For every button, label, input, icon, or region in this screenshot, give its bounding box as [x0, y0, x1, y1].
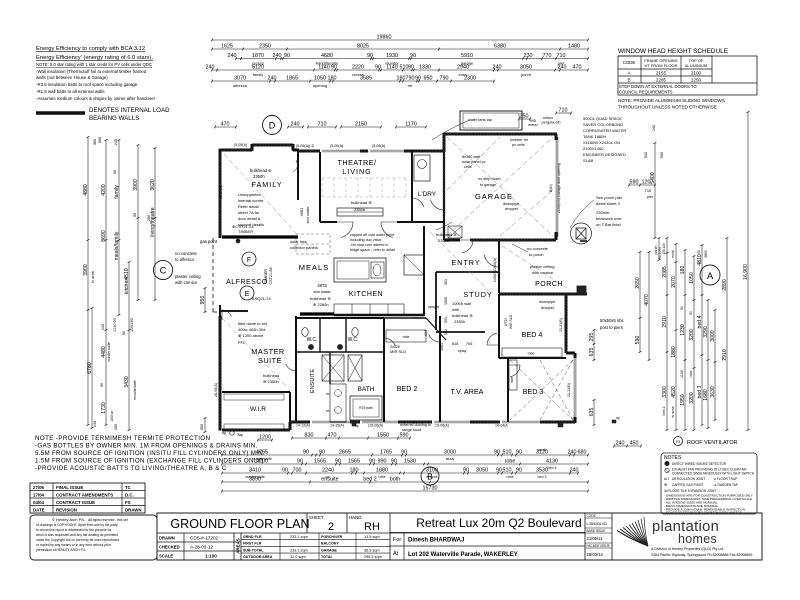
- svg-text:90: 90: [689, 311, 693, 315]
- svg-text:B: B: [627, 78, 630, 83]
- roof ventilator note: [674, 437, 738, 447]
- svg-text:T.V. AREA: T.V. AREA: [451, 387, 484, 396]
- svg-text:LIVING: LIVING: [342, 167, 372, 176]
- svg-text:3620: 3620: [150, 179, 156, 191]
- svg-text:GARAGE: GARAGE: [321, 548, 337, 552]
- svg-text:21/09/11: 21/09/11: [587, 536, 604, 541]
- svg-text:SLAB: SLAB: [583, 158, 594, 163]
- svg-text:OUTDOOR AREA: OUTDOOR AREA: [243, 555, 273, 559]
- svg-text:1050: 1050: [689, 272, 695, 284]
- svg-text:2450X2280(A): 2450X2280(A): [493, 257, 497, 282]
- svg-text:both: both: [390, 476, 401, 482]
- svg-text:3000: 3000: [444, 449, 456, 455]
- svg-text:-R3.5 insulation batts to roof: -R3.5 insulation batts to roof space inc…: [36, 82, 138, 87]
- svg-text:range hood: range hood: [402, 428, 421, 432]
- svg-text:robe: robe: [378, 475, 385, 479]
- svg-text:FACADE ISSUE: FACADE ISSUE: [587, 544, 610, 548]
- svg-text:3354 Pacific Highway, Springwo: 3354 Pacific Highway, Springwood Ph:3290…: [651, 553, 752, 557]
- svg-text:180: 180: [680, 266, 686, 275]
- svg-text:2100: 2100: [691, 71, 702, 76]
- svg-text:PORCH: PORCH: [535, 281, 563, 288]
- svg-text:including duo valve: including duo valve: [350, 238, 381, 242]
- svg-text:710: 710: [557, 53, 566, 59]
- svg-text:Tap: Tap: [237, 433, 243, 437]
- svg-text:3200: 3200: [689, 329, 695, 341]
- svg-text:DRAWN: DRAWN: [125, 508, 142, 513]
- plan top dims tier 2: [215, 126, 236, 128]
- svg-text:⊕ 2280h: ⊕ 2280h: [313, 302, 329, 307]
- svg-text:950: 950: [424, 75, 433, 81]
- svg-text:19860: 19860: [377, 34, 392, 40]
- svg-text:4880: 4880: [83, 184, 89, 196]
- svg-text:capped off cold water point: capped off cold water point: [350, 233, 394, 237]
- svg-text:3530: 3530: [536, 467, 548, 473]
- svg-text:TOTAL: TOTAL: [321, 555, 333, 559]
- svg-text:680: 680: [578, 449, 587, 455]
- svg-text:2285: 2285: [656, 78, 667, 83]
- svg-text:2650: 2650: [635, 277, 641, 289]
- svg-text:3050: 3050: [520, 64, 532, 70]
- svg-text:2070: 2070: [671, 276, 677, 288]
- svg-text:510: 510: [503, 449, 512, 455]
- svg-text:DRAWN: DRAWN: [159, 536, 175, 541]
- svg-text:1050/90: 1050/90: [130, 318, 134, 332]
- svg-text:240: 240: [268, 75, 277, 81]
- svg-text:1870: 1870: [252, 53, 264, 59]
- svg-text:14-15(A): 14-15(A): [330, 424, 344, 428]
- svg-text:230: 230: [524, 53, 533, 59]
- svg-text:pergola o/b: pergola o/b: [542, 121, 561, 125]
- svg-text:family: family: [253, 72, 263, 77]
- svg-text:internal corner.: internal corner.: [238, 198, 264, 203]
- datum circle B: [421, 467, 439, 485]
- svg-text:● FLOOR TRAP: ● FLOOR TRAP: [714, 477, 737, 481]
- svg-text:collector panels: collector panels: [290, 245, 318, 250]
- svg-text:1000h wall: 1000h wall: [452, 301, 471, 306]
- svg-text:TC: TC: [125, 485, 132, 490]
- svg-text:295.3 sqm: 295.3 sqm: [364, 555, 382, 559]
- svg-text:W.C.: W.C.: [307, 337, 318, 343]
- svg-text:D.C.: D.C.: [125, 493, 134, 498]
- svg-text:16,900: 16,900: [743, 264, 749, 280]
- svg-text:meals/family: meals/family: [114, 231, 120, 260]
- svg-text:-R1.5 wall batts to all extern: -R1.5 wall batts to all external walls: [36, 89, 105, 94]
- svg-text:1765: 1765: [380, 449, 392, 455]
- svg-text:porch: porch: [538, 448, 547, 452]
- svg-text:R75 bath: R75 bath: [359, 406, 373, 410]
- svg-text:dp: dp: [616, 416, 620, 420]
- svg-text:SHEET: SHEET: [309, 515, 324, 520]
- svg-text:porch: porch: [521, 72, 531, 77]
- svg-text:RH: RH: [364, 521, 380, 533]
- svg-text:4480: 4480: [101, 346, 107, 358]
- svg-text:90: 90: [463, 467, 469, 473]
- svg-text:3070: 3070: [234, 75, 246, 81]
- svg-text:ALFRESCO: ALFRESCO: [226, 279, 268, 286]
- svg-text:FIRST FLR: FIRST FLR: [243, 542, 262, 546]
- svg-text:950: 950: [200, 424, 204, 430]
- svg-text:Refer detail: Refer detail: [238, 204, 259, 209]
- theatre dashed ceiling: [322, 178, 406, 197]
- svg-text:THEATRE/: THEATRE/: [337, 158, 376, 167]
- top dimension row 3: [236, 58, 588, 60]
- svg-text:2350h: 2350h: [454, 319, 465, 324]
- top dimension row 19860: [212, 39, 588, 41]
- svg-text:Dinesh BHARDWAJ: Dinesh BHARDWAJ: [408, 538, 464, 544]
- svg-text:36.3 sqm: 36.3 sqm: [364, 548, 380, 552]
- svg-text:robe: robe: [689, 370, 693, 377]
- svg-text:3890: 3890: [249, 476, 261, 482]
- svg-text:vb: vb: [326, 409, 330, 413]
- exterior walls: [213, 133, 592, 431]
- copyright box: [30, 515, 157, 560]
- svg-text:240 wr: 240 wr: [110, 410, 114, 422]
- svg-text:C: C: [160, 266, 167, 276]
- svg-text:external ducting to: external ducting to: [400, 423, 431, 427]
- areas table: [236, 533, 391, 560]
- notes box: [661, 453, 757, 515]
- svg-text:THROUGHOUT UNLESS NOTED OTHERW: THROUGHOUT UNLESS NOTED OTHERWISE: [618, 105, 717, 110]
- svg-text:8x180 watt: 8x180 watt: [462, 155, 481, 159]
- svg-text:TANK 1880H: TANK 1880H: [583, 134, 606, 139]
- svg-text:BALCONY: BALCONY: [321, 542, 339, 546]
- svg-text:CONTRACT AMENDMENTS: CONTRACT AMENDMENTS: [56, 493, 113, 498]
- svg-text:FS: FS: [125, 500, 131, 505]
- svg-text:2220: 2220: [352, 64, 364, 70]
- svg-text:FINAL ISSUE: FINAL ISSUE: [56, 485, 83, 490]
- svg-text:BED 2: BED 2: [397, 384, 418, 393]
- svg-text:GROUND FLOOR PLAN: GROUND FLOOR PLAN: [170, 517, 309, 531]
- svg-text:5910: 5910: [461, 53, 473, 59]
- svg-text:3900: 3900: [83, 264, 89, 276]
- svg-text:590: 590: [635, 336, 641, 345]
- svg-text:HT FROM FLOOR: HT FROM FLOOR: [644, 63, 677, 68]
- svg-text:790: 790: [440, 75, 449, 81]
- svg-text:5.5M FROM SOURCE OF IGNITION (: 5.5M FROM SOURCE OF IGNITION (INSITU FIL…: [35, 450, 265, 457]
- svg-text:NOTE: 5.0 star rating with 1 s: NOTE: 5.0 star rating with 1 star credit…: [36, 62, 152, 67]
- title block frame: [157, 513, 762, 560]
- svg-text:MEALS: MEALS: [299, 263, 329, 272]
- left dimension band: [83, 136, 157, 431]
- svg-text:alfresco: alfresco: [233, 83, 248, 88]
- dp marks: [352, 423, 356, 426]
- svg-text:2155: 2155: [656, 71, 667, 76]
- svg-text:fridge space - refer to detail: fridge space - refer to detail: [350, 248, 395, 252]
- svg-text:3900: 3900: [133, 179, 139, 191]
- svg-text:3d FLOOR TILE EXPANSION JOINT: 3d FLOOR TILE EXPANSION JOINT: [664, 489, 716, 493]
- svg-text:180: 180: [397, 75, 406, 81]
- svg-text:(5-05(A): (5-05(A): [330, 144, 343, 148]
- svg-text:with cornice: with cornice: [175, 280, 198, 285]
- internal load bearing walls legend: [36, 107, 170, 122]
- svg-text:sheet 7A for: sheet 7A for: [238, 210, 260, 215]
- svg-text:1880: 1880: [376, 467, 388, 473]
- svg-text:with cornice: with cornice: [532, 270, 554, 275]
- svg-text:water tank tap: water tank tap: [468, 118, 492, 122]
- svg-text:2240: 2240: [322, 467, 334, 473]
- svg-text:ARTICULATION JOINT: ARTICULATION JOINT: [672, 477, 705, 481]
- svg-text:1565: 1565: [314, 458, 326, 464]
- svg-text:1230: 1230: [680, 324, 686, 336]
- svg-text:710: 710: [559, 107, 568, 113]
- svg-text:of drawings is COPYRIGHT. Apar: of drawings is COPYRIGHT. Apart from use…: [36, 523, 118, 527]
- svg-text:27/06: 27/06: [33, 485, 45, 490]
- svg-text:DENOTES INTERNAL LOAD: DENOTES INTERNAL LOAD: [89, 107, 170, 114]
- svg-text:21-24(B): 21-24(B): [567, 383, 571, 397]
- svg-text:1505: 1505: [444, 297, 448, 305]
- garage roof diagonals: [447, 137, 553, 236]
- svg-text:DIRECT WIRED SMOKE DETECTOR: DIRECT WIRED SMOKE DETECTOR: [672, 462, 727, 466]
- datum circle F: [242, 252, 256, 266]
- svg-text:295: 295: [589, 333, 595, 342]
- svg-text:Energy Efficiency to comply wi: Energy Efficiency to comply with BCA 3.1…: [36, 46, 145, 52]
- svg-text:500OL QUAD SPACE: 500OL QUAD SPACE: [583, 116, 622, 121]
- svg-text:F3: F3: [676, 440, 680, 444]
- svg-text:90: 90: [297, 458, 303, 464]
- svg-text:90: 90: [284, 53, 290, 59]
- svg-text:4200: 4200: [101, 184, 107, 196]
- svg-text:830: 830: [305, 432, 314, 438]
- svg-text:E: E: [245, 291, 250, 298]
- svg-text:233.1 sqm: 233.1 sqm: [290, 535, 308, 539]
- svg-text:⊕ GARDEN TAP: ⊕ GARDEN TAP: [714, 483, 738, 487]
- svg-text:opening: opening: [313, 83, 327, 88]
- svg-text:X1160W X2440L ON: X1160W X2440L ON: [583, 140, 620, 145]
- svg-text:510: 510: [503, 467, 512, 473]
- svg-text:At: At: [393, 551, 399, 557]
- svg-text:CONTRACT ISSUE: CONTRACT ISSUE: [56, 500, 95, 505]
- svg-text:3200: 3200: [689, 392, 695, 404]
- svg-text:694: 694: [424, 330, 428, 336]
- svg-text:SUB-TOTAL: SUB-TOTAL: [243, 548, 264, 552]
- svg-text:2350b: 2350b: [354, 207, 366, 212]
- svg-text:bulkhead ⊕: bulkhead ⊕: [250, 168, 272, 173]
- svg-text:590: 590: [660, 152, 664, 158]
- svg-text:180: 180: [350, 467, 359, 473]
- svg-text:post to piers: post to piers: [600, 325, 623, 330]
- datum circle E: [240, 286, 254, 300]
- svg-text:For: For: [393, 537, 401, 543]
- svg-text:bulkhead ⊕: bulkhead ⊕: [436, 232, 457, 237]
- svg-text:detail sheet 3: detail sheet 3: [596, 201, 621, 206]
- svg-text:no step down: no step down: [478, 177, 501, 181]
- svg-text:1140 90: 1140 90: [113, 318, 117, 331]
- svg-text:4873: 4873: [317, 283, 327, 288]
- svg-text:m/box: m/box: [543, 116, 553, 120]
- svg-text:90: 90: [496, 467, 502, 473]
- svg-text:3300: 3300: [662, 386, 668, 398]
- svg-text:pv cells: pv cells: [512, 143, 525, 147]
- svg-text:04/04: 04/04: [33, 500, 45, 505]
- svg-text:SUITE: SUITE: [258, 356, 282, 365]
- svg-text:permission of HENLEY ARCH P/L: permission of HENLEY ARCH P/L: [36, 548, 86, 552]
- svg-text:5890: 5890: [704, 250, 708, 258]
- svg-text:ensuite: ensuite: [321, 476, 338, 482]
- svg-text:1.5M FROM SOURCE OF IGNITION (: 1.5M FROM SOURCE OF IGNITION (EXCHANGE F…: [35, 458, 264, 465]
- svg-text:ALUMINIUM: ALUMINIUM: [685, 63, 707, 68]
- termite protection note: [35, 435, 265, 472]
- svg-text:90: 90: [516, 467, 522, 473]
- svg-text:4520: 4520: [671, 386, 677, 398]
- svg-text:3050: 3050: [476, 467, 488, 473]
- svg-text:ENTRY: ENTRY: [451, 258, 480, 267]
- svg-text:50x50x5 shs: 50x50x5 shs: [600, 318, 624, 323]
- svg-text:solar panel pv: solar panel pv: [462, 160, 486, 164]
- svg-text:1480: 1480: [568, 43, 580, 49]
- svg-text:240: 240: [493, 64, 502, 70]
- retreat cell: [390, 516, 585, 560]
- svg-text:120: 120: [642, 179, 651, 185]
- interior walls: [222, 150, 566, 429]
- svg-text:bed 4: bed 4: [548, 466, 557, 470]
- svg-text:tv area: tv area: [91, 270, 95, 282]
- svg-text:NOTE -PROVIDE TERMIMESH TERMIT: NOTE -PROVIDE TERMIMESH TERMITE PROTECTI…: [35, 435, 210, 442]
- svg-text:to whom this report is address: to whom this report is addressed for the…: [36, 528, 112, 532]
- svg-text:2350h: 2350h: [253, 174, 265, 179]
- svg-text:818: 818: [452, 342, 458, 346]
- svg-text:no concrete: no concrete: [527, 246, 549, 251]
- aluminium sliding windows note: [618, 98, 725, 110]
- svg-text:240: 240: [558, 64, 567, 70]
- svg-text:sink waste: sink waste: [306, 207, 310, 224]
- svg-text:master suite: master suite: [107, 342, 111, 362]
- svg-text:28/03/12: 28/03/12: [587, 552, 604, 557]
- svg-text:upright: upright: [428, 305, 439, 309]
- svg-text:which it was requested and any: which it was requested and any fair deal…: [36, 533, 118, 537]
- svg-text:790: 790: [406, 75, 415, 81]
- svg-text:vb: vb: [326, 392, 330, 396]
- svg-text:233.1 sqm: 233.1 sqm: [290, 548, 308, 552]
- svg-text:2085: 2085: [662, 266, 668, 278]
- svg-text:HAND: HAND: [349, 515, 361, 520]
- svg-text:robe: robe: [510, 377, 514, 384]
- svg-text:15-06(A): 15-06(A): [435, 424, 449, 428]
- svg-text:⊕ 1200 above: ⊕ 1200 above: [238, 333, 264, 338]
- svg-text:635: 635: [589, 408, 595, 417]
- svg-text:3290: 3290: [703, 326, 709, 338]
- svg-text:(5-05(A): (5-05(A): [372, 144, 385, 148]
- svg-text:W.I.R: W.I.R: [250, 406, 266, 413]
- svg-text:(15-06(A): (15-06(A): [368, 424, 383, 428]
- svg-text:706: 706: [466, 342, 472, 346]
- svg-text:240: 240: [206, 64, 215, 70]
- svg-text:robe: robe: [505, 458, 516, 464]
- svg-text:2910: 2910: [722, 349, 728, 361]
- svg-text:2665: 2665: [339, 449, 351, 455]
- svg-text:gas point: gas point: [200, 239, 218, 244]
- svg-text:bed 2: bed 2: [662, 407, 666, 416]
- svg-text:17/04: 17/04: [33, 493, 45, 498]
- svg-text:DATE: DATE: [33, 508, 45, 513]
- drawn/checked/scale: [159, 536, 219, 559]
- svg-text:L'DRY: L'DRY: [418, 191, 437, 198]
- svg-text:tv area: tv area: [671, 407, 675, 418]
- svg-text:1140: 1140: [318, 64, 330, 70]
- svg-text:1680: 1680: [703, 389, 709, 401]
- svg-text:2150: 2150: [355, 121, 367, 127]
- svg-text:bulkhead ⊕: bulkhead ⊕: [452, 313, 473, 318]
- svg-text:family: family: [114, 185, 120, 199]
- svg-text:3000: 3000: [710, 330, 716, 342]
- svg-text:1160: 1160: [680, 370, 684, 378]
- svg-text:plaster ceiling: plaster ceiling: [175, 274, 201, 279]
- svg-text:1625: 1625: [221, 43, 233, 49]
- svg-text:240: 240: [652, 125, 656, 131]
- svg-text:with: with: [452, 307, 459, 312]
- svg-text:240: 240: [273, 53, 282, 59]
- svg-text:240: 240: [291, 121, 300, 127]
- left inner dims: [153, 239, 217, 433]
- svg-text:STUDY: STUDY: [463, 290, 492, 299]
- svg-text:450: 450: [630, 440, 639, 446]
- svg-text:SAVER COLORBOND: SAVER COLORBOND: [583, 122, 623, 127]
- svg-text:2100X1400: 2100X1400: [583, 146, 604, 151]
- svg-text:350: 350: [520, 113, 529, 119]
- svg-text:6780: 6780: [87, 362, 93, 374]
- window labels: [214, 143, 571, 428]
- svg-text:tiled niche to shr: tiled niche to shr: [238, 321, 268, 326]
- svg-text:240: 240: [93, 421, 97, 427]
- bottom dimension band rows: [221, 431, 589, 493]
- svg-text:© Henley Arch P/L: © Henley Arch P/L: [52, 517, 86, 522]
- solar collector dashed: [296, 234, 330, 254]
- svg-text:1530: 1530: [404, 458, 416, 464]
- svg-text:D: D: [269, 121, 276, 131]
- svg-text:dropper: dropper: [505, 207, 519, 211]
- svg-text:WIR SLD: WIR SLD: [509, 314, 513, 329]
- svg-text:8690: 8690: [101, 230, 107, 242]
- svg-text:1170: 1170: [405, 121, 417, 127]
- svg-text:entry: entry: [671, 250, 675, 258]
- svg-text:240: 240: [228, 53, 237, 59]
- svg-text:splay: splay: [458, 349, 467, 353]
- svg-text:2940: 2940: [457, 64, 469, 70]
- svg-text:W.C.: W.C.: [348, 337, 359, 343]
- svg-text:CODE: CODE: [587, 514, 596, 518]
- svg-text:90: 90: [375, 64, 381, 70]
- svg-text:CONNECTED SIMULTANEOUSLY WITH: CONNECTED SIMULTANEOUSLY WITH LIGHT SWIT…: [672, 472, 755, 476]
- svg-text:FFL: FFL: [238, 340, 246, 345]
- svg-text:20-05(A): 20-05(A): [214, 383, 218, 397]
- right dimension band: [589, 111, 750, 447]
- svg-text:6380: 6380: [494, 43, 506, 49]
- svg-text:90: 90: [335, 458, 341, 464]
- svg-text:A-28-03-12: A-28-03-12: [190, 545, 213, 550]
- svg-text:950: 950: [200, 296, 206, 305]
- svg-text:robe: robe: [403, 335, 410, 339]
- svg-text:Retreat Lux 20m Q2 Boulevard: Retreat Lux 20m Q2 Boulevard: [416, 516, 581, 530]
- svg-text:2/720: 2/720: [504, 318, 508, 327]
- svg-text:580: 580: [98, 137, 102, 143]
- water tank: [460, 111, 522, 130]
- svg-text:90: 90: [282, 467, 288, 473]
- svg-text:GARAGE: GARAGE: [475, 192, 513, 201]
- svg-text:700: 700: [293, 467, 302, 473]
- leader lines: [293, 120, 594, 252]
- svg-text:study: study: [446, 457, 455, 461]
- svg-text:1200: 1200: [259, 434, 271, 440]
- svg-text:(5-05(A): (5-05(A): [234, 143, 247, 147]
- svg-text:CHECKED: CHECKED: [159, 545, 180, 550]
- svg-text:14-12(A): 14-12(A): [296, 424, 310, 428]
- svg-text:541: 541: [444, 329, 448, 335]
- svg-text:90: 90: [391, 458, 397, 464]
- svg-text:240: 240: [616, 440, 625, 446]
- annotation texts: [232, 116, 626, 432]
- svg-text:plaster ceiling: plaster ceiling: [530, 264, 554, 269]
- svg-text:4681: 4681: [299, 207, 304, 217]
- svg-text:1730: 1730: [101, 402, 107, 414]
